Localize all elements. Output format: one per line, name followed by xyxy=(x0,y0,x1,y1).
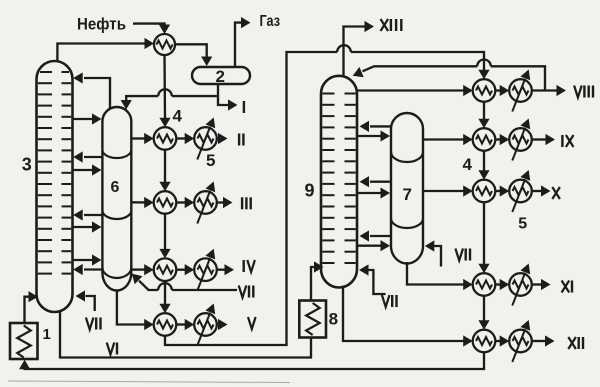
stream VIII feed line xyxy=(357,85,473,96)
exchanger outlet to drum xyxy=(175,44,212,66)
heat exchanger 4a xyxy=(154,127,177,150)
arrow 4 to 5 at y=138.5 xyxy=(176,133,194,144)
vapor return to column 3 (1) xyxy=(73,151,102,162)
vapor return to column 9 (top) xyxy=(360,121,392,132)
svg-text:Нефть: Нефть xyxy=(77,15,126,34)
crude line to furnace 1 xyxy=(19,352,484,369)
arrow 4 to 5 at y=269.7 xyxy=(176,264,194,275)
label VII (middle) xyxy=(239,286,254,298)
svg-text:7: 7 xyxy=(403,185,412,204)
svg-text:4: 4 xyxy=(173,107,183,126)
label VI xyxy=(107,343,117,355)
cooler 5a xyxy=(194,118,217,160)
label 5 (right) xyxy=(518,216,527,233)
label 6 xyxy=(111,179,120,196)
column 9 trays xyxy=(322,94,355,264)
label X xyxy=(552,187,560,199)
svg-text:8: 8 xyxy=(329,309,338,328)
column 3 trays xyxy=(38,72,71,274)
furnace 8 xyxy=(299,301,326,338)
furnace 1 outlet to column 3 xyxy=(25,291,39,323)
cooler 5d xyxy=(194,304,217,346)
label 8 xyxy=(329,309,338,328)
furnace 1 xyxy=(10,323,38,359)
heat exchanger 4b xyxy=(154,191,177,214)
steam VII line into column 6 xyxy=(132,274,237,290)
svg-text:3: 3 xyxy=(22,155,32,175)
crude line 4a to 4b xyxy=(159,150,170,191)
column 7 (side stripper) shell xyxy=(391,113,423,264)
svg-text:1: 1 xyxy=(43,326,51,343)
label III xyxy=(242,197,251,209)
crude line IX to X xyxy=(478,151,489,180)
label Газ xyxy=(260,13,281,30)
heat exchanger 4e xyxy=(473,79,496,102)
svg-text:5: 5 xyxy=(518,216,527,233)
crude line XI to XII xyxy=(478,296,489,330)
label VIII xyxy=(574,86,593,98)
stream III outlet xyxy=(217,197,233,208)
cooler 5f xyxy=(509,119,532,161)
crude line 4b to 4c xyxy=(159,214,170,259)
reflux line to column 9 xyxy=(353,60,545,91)
label 9 xyxy=(305,180,315,200)
column 6 bottom return to column 3 xyxy=(73,264,102,275)
crude line 4d to right exchanger train xyxy=(165,45,490,345)
stream XII outlet xyxy=(532,335,555,346)
label 4 (right) xyxy=(463,155,473,174)
heat exchanger 4c xyxy=(154,258,177,281)
draw to column 6 section 2 xyxy=(73,164,102,175)
label VII (left) xyxy=(86,318,101,330)
stream IX outlet xyxy=(531,134,555,145)
stream V feed line xyxy=(117,290,154,331)
svg-text:5: 5 xyxy=(206,151,215,170)
column 3 bottoms to furnace 8 xyxy=(60,311,311,358)
label 3 xyxy=(22,155,32,175)
cooler 5e xyxy=(509,70,532,112)
arrow XI xyxy=(495,279,509,290)
draw to column 7 section 2 xyxy=(357,187,390,198)
label VII (column 7) xyxy=(455,249,470,261)
draw to column 7 section 3 xyxy=(357,240,390,251)
svg-text:9: 9 xyxy=(305,180,315,200)
stream V outlet xyxy=(217,319,228,330)
heat exchanger 4f xyxy=(473,128,496,151)
vapor return to column 9 (bottom) xyxy=(360,230,392,241)
cooler 5b xyxy=(194,182,217,224)
label IX xyxy=(562,135,573,147)
crude line 4c to 4d xyxy=(159,281,170,313)
cooler 5i xyxy=(509,320,532,362)
label 2 xyxy=(216,67,225,86)
arrow XII xyxy=(495,335,509,346)
column 9 shell xyxy=(321,76,357,288)
stream II outlet xyxy=(217,133,228,144)
label 4 (left) xyxy=(173,107,183,126)
stream XII feed line xyxy=(343,286,473,347)
label XI xyxy=(562,281,572,293)
stream XI feed line xyxy=(407,262,473,290)
stream IV feed line xyxy=(132,264,154,275)
heat exchanger 4g xyxy=(473,180,496,203)
svg-text:6: 6 xyxy=(111,179,120,196)
column 3 (pre-flash tower) shell xyxy=(37,61,73,312)
heat exchanger (crude preheat) xyxy=(154,34,175,55)
arrow 4e to 5e xyxy=(495,85,509,96)
draw to column 7 section 1 xyxy=(357,130,390,141)
stream IX feed line xyxy=(423,134,473,145)
steam VII line into column 9 xyxy=(359,264,386,294)
arrow IX xyxy=(495,134,509,145)
column 6 overhead vapor to column 3 xyxy=(73,72,110,109)
column 7 section dividers xyxy=(391,152,423,228)
label 1 xyxy=(43,326,51,343)
reflux line drum to column 6 xyxy=(121,89,218,109)
label V xyxy=(248,317,256,329)
label 7 xyxy=(403,185,412,204)
stream X feed line xyxy=(423,185,473,196)
stream VIII outlet xyxy=(532,85,566,96)
stream XI outlet xyxy=(531,279,551,290)
crude line 4e down (VIII to IX) xyxy=(478,102,489,128)
column 6 section dividers xyxy=(102,150,131,278)
draw to column 6 section 3 xyxy=(73,221,102,232)
label 5 (left) xyxy=(206,151,215,170)
stream II feed line xyxy=(131,133,153,144)
cooler 5c xyxy=(194,249,217,291)
stream I line xyxy=(218,84,238,111)
label IV xyxy=(244,260,255,272)
arrow 4 to 5 at y=324.5 xyxy=(176,319,194,330)
svg-text:2: 2 xyxy=(216,67,225,86)
label XII xyxy=(568,337,583,349)
drum 2 (separator) xyxy=(192,67,250,84)
heat exchanger 4h xyxy=(473,273,496,296)
vapor return to column 9 (mid) xyxy=(360,176,392,187)
heat exchanger 4i xyxy=(473,330,496,353)
stream IV outlet xyxy=(217,264,234,275)
cooler 5g xyxy=(509,170,532,212)
furnace 8 outlet to column 9 xyxy=(311,261,324,300)
crude line X to XI xyxy=(478,202,489,273)
column 3 overhead line xyxy=(57,38,154,62)
crude line exchanger to 4a xyxy=(159,55,170,127)
steam VII line into column 3 xyxy=(76,290,95,311)
draw to column 6 bottom xyxy=(73,254,102,265)
label I xyxy=(243,101,245,113)
stream XIII line xyxy=(344,21,375,77)
vapor return to column 3 (2) xyxy=(73,209,102,220)
svg-text:4: 4 xyxy=(463,155,473,174)
heat exchanger 4d xyxy=(154,313,177,336)
stream X outlet xyxy=(531,185,551,196)
steam VII line into column 7 xyxy=(425,240,441,266)
arrow X xyxy=(495,185,509,196)
arrow 4 to 5 at y=202.5 xyxy=(176,197,194,208)
scan artifact line xyxy=(8,381,290,383)
column 6 (side stripper, 3 sections) shell xyxy=(102,107,131,290)
label II xyxy=(239,134,243,146)
crude feed arrow into exchanger xyxy=(133,24,170,34)
gas line xyxy=(235,17,251,67)
cooler 5h xyxy=(509,264,532,306)
svg-text:Газ: Газ xyxy=(260,13,281,30)
draw to column 6 section 1 xyxy=(73,113,102,124)
label Нефть xyxy=(77,15,126,34)
label VII (column 9) xyxy=(382,295,397,307)
label XIII xyxy=(381,19,402,31)
stream III feed line xyxy=(131,197,153,208)
